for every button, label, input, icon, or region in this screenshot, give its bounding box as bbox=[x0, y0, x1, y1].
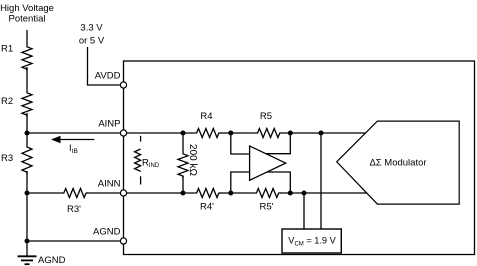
label 3.3 V or 5 V bbox=[79, 22, 105, 46]
pin AGND bbox=[120, 238, 126, 244]
svg-text:AGND: AGND bbox=[93, 227, 121, 238]
wire op-amp top input from R4-R5 node bbox=[231, 133, 252, 154]
wire node AGND to ground bbox=[26, 241, 28, 256]
resistor 200 kOhm bbox=[178, 133, 198, 193]
wire 3.3V supply to AVDD pin bbox=[88, 47, 121, 85]
pin AINN bbox=[120, 190, 126, 196]
svg-text:AINN: AINN bbox=[98, 179, 121, 190]
wire bottom feedback from R5' right node to op-amp output bbox=[266, 172, 290, 193]
junction VCM bottom branch bbox=[302, 191, 307, 196]
junction R4-R5 node bbox=[228, 131, 233, 136]
resistor R5 bbox=[256, 111, 282, 139]
label High Voltage Potential bbox=[0, 3, 54, 24]
delta-sigma modulator block bbox=[337, 121, 460, 204]
wire AGND pin to node bbox=[27, 240, 124, 242]
junction node R2-R3-AINP bbox=[25, 131, 30, 136]
resistor R1 bbox=[1, 44, 32, 72]
junction node AGND wire bbox=[25, 239, 30, 244]
wire R3 to node AINN bbox=[26, 171, 28, 193]
junction R5' feedback node bbox=[288, 191, 293, 196]
op-amp U1 bbox=[250, 146, 286, 180]
wire top feedback from R5 right node to op-amp output bbox=[266, 133, 290, 154]
resistor R3' bbox=[62, 188, 88, 216]
junction 200k top bbox=[181, 131, 186, 136]
wire VCM branch from AINP rail bbox=[320, 133, 322, 229]
svg-text:Potential: Potential bbox=[9, 13, 46, 24]
wire AINN rail: R3' net from node to pin and into IC bbox=[27, 192, 371, 194]
svg-text:R5': R5' bbox=[260, 202, 274, 213]
wire R2 to node AINP bbox=[26, 113, 28, 133]
junction 200k bottom bbox=[181, 191, 186, 196]
svg-text:R5: R5 bbox=[260, 111, 272, 122]
svg-text:3.3 V: 3.3 V bbox=[80, 22, 103, 33]
wire node AINN to node AGND bbox=[26, 193, 28, 241]
resistor R4' bbox=[195, 188, 221, 213]
svg-text:AVDD: AVDD bbox=[95, 70, 121, 81]
wire AINP rail bbox=[27, 132, 371, 134]
svg-text:or 5 V: or 5 V bbox=[79, 35, 105, 46]
svg-text:R1: R1 bbox=[1, 44, 13, 55]
resistor R2 bbox=[1, 91, 32, 117]
resistor R3 bbox=[1, 145, 32, 174]
wire op-amp bottom input from R4'-R5' node bbox=[231, 172, 252, 193]
VCM source box bbox=[282, 229, 341, 253]
svg-text:200 kΩ: 200 kΩ bbox=[187, 144, 198, 176]
current arrow IIB bbox=[51, 136, 94, 155]
junction R5 feedback node bbox=[288, 131, 293, 136]
wire node AINP to R3 bbox=[26, 133, 28, 145]
pin AINP bbox=[120, 130, 126, 136]
svg-text:R3: R3 bbox=[1, 153, 13, 164]
ground AGND symbol bbox=[18, 255, 66, 266]
svg-text:ΔΣ Modulator: ΔΣ Modulator bbox=[369, 158, 426, 169]
svg-text:R4: R4 bbox=[200, 111, 212, 122]
resistor R4 bbox=[195, 111, 221, 139]
svg-text:AGND: AGND bbox=[38, 255, 66, 266]
pin AVDD bbox=[120, 82, 126, 88]
svg-text:R4': R4' bbox=[200, 202, 214, 213]
IC box bbox=[124, 61, 475, 255]
resistor RIND with dashed leads bbox=[135, 136, 160, 185]
junction R4'-R5' node bbox=[228, 191, 233, 196]
wire VCM branch from AINN rail bbox=[303, 193, 305, 229]
wire R1 to R2 bbox=[26, 67, 28, 91]
junction VCM top branch bbox=[319, 131, 324, 136]
resistor R5' bbox=[255, 188, 281, 213]
svg-text:AINP: AINP bbox=[98, 119, 120, 130]
junction node R3-R3'-AGND bbox=[25, 191, 30, 196]
svg-text:R3': R3' bbox=[67, 204, 81, 215]
svg-text:R2: R2 bbox=[1, 96, 13, 107]
wire from High Voltage Potential to R1 bbox=[26, 30, 28, 45]
